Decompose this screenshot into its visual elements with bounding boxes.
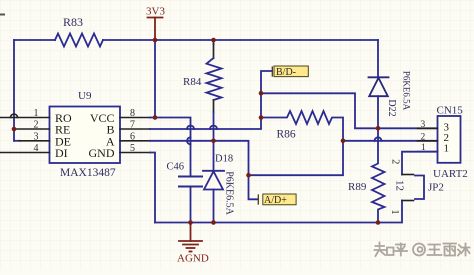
junction R84 top on rail: [211, 38, 216, 43]
pin 3 DE wire: [20, 140, 50, 142]
ground AGND: [179, 223, 202, 252]
net label B/D-: [272, 66, 308, 78]
wire hop on B over VCC drop: [187, 126, 194, 130]
svg-text:MAX13487: MAX13487: [60, 167, 116, 179]
capacitor C46: [179, 177, 202, 187]
svg-text:AGND: AGND: [177, 252, 209, 264]
pin 8 VCC stub: [120, 117, 150, 119]
wire hop on B over R84 leg: [210, 126, 217, 130]
junction C46 AGND on GND rail: [188, 220, 193, 225]
svg-text:P6KE6.5A: P6KE6.5A: [224, 171, 235, 215]
pin 1 RO wire: [0, 117, 50, 119]
wire CN15 pin1 to JP2 pin2: [402, 152, 438, 175]
svg-text:R83: R83: [63, 15, 83, 29]
wire 3V3 down to VCC pin 8: [154, 40, 156, 118]
svg-text:R84: R84: [183, 76, 202, 88]
pin 2 RE wire: [14, 128, 50, 130]
svg-text:3V3: 3V3: [146, 6, 165, 18]
svg-text:1: 1: [34, 108, 39, 119]
pin numbers U9: [34, 108, 136, 154]
junction R86 left on B riser: [259, 115, 264, 120]
wire 3V3 rail right segment: [103, 39, 378, 41]
resistor R86: [261, 111, 343, 141]
junction R84 bottom on A wire: [211, 139, 216, 144]
junction R86 right on A wire: [341, 139, 346, 144]
wire A net pin6 to drop: [150, 141, 249, 175]
junction B riser split: [259, 91, 264, 96]
svg-text:C46: C46: [167, 161, 185, 172]
svg-text:3: 3: [34, 131, 39, 142]
connector CN15 body box: [438, 116, 461, 163]
net label A/D+: [258, 194, 296, 206]
CN15 pin names: [444, 122, 450, 155]
wire 3V3 rail left segment to R83: [14, 39, 55, 41]
wire GND pin5 down: [150, 153, 155, 223]
svg-text:R89: R89: [348, 181, 367, 193]
header JP2 pin 2 stub: [402, 174, 414, 176]
svg-text:12: 12: [394, 180, 406, 191]
svg-text:2: 2: [390, 159, 401, 164]
wire R83 left leg down to DE pin: [13, 40, 15, 141]
svg-text:UART2: UART2: [433, 168, 468, 180]
resistor R89: [372, 128, 385, 222]
header JP2 pin 1 stub: [402, 200, 414, 202]
wire to net label B/D-: [261, 71, 272, 93]
svg-text:2: 2: [421, 132, 426, 142]
svg-text:D18: D18: [215, 153, 233, 164]
svg-text:JP2: JP2: [428, 182, 444, 194]
power port 3V3: [148, 18, 163, 41]
resistor R83: [55, 34, 103, 47]
pin 7 B stub: [120, 128, 150, 130]
CN15 pin stubs 3 2 1: [418, 128, 438, 151]
wire VCC net to C46: [150, 118, 191, 177]
junction D22 R89 on B wire: [376, 126, 381, 131]
svg-text:A/D+: A/D+: [264, 195, 287, 206]
svg-text:D22: D22: [386, 99, 397, 116]
svg-text:B/D-: B/D-: [276, 67, 296, 78]
svg-text:7: 7: [130, 120, 135, 131]
svg-text:GND: GND: [89, 146, 115, 160]
svg-text:CN15: CN15: [437, 104, 464, 116]
pin 4 DI wire: [0, 152, 50, 154]
diode D22: [369, 40, 389, 128]
header JP2 bracket: [415, 176, 424, 200]
wire A net to CN15 pin 2: [343, 140, 438, 142]
svg-text:1: 1: [389, 209, 400, 214]
svg-text:3: 3: [421, 120, 426, 130]
svg-text:2: 2: [34, 120, 39, 131]
junction A drop split: [246, 173, 251, 178]
svg-text:6: 6: [130, 131, 135, 142]
svg-text:R86: R86: [277, 128, 296, 140]
junction R89 bottom on GND rail: [376, 220, 381, 225]
junction D18 bottom on GND rail: [211, 220, 216, 225]
svg-text:8: 8: [130, 108, 135, 119]
svg-text:P6KE6.5A: P6KE6.5A: [402, 71, 412, 111]
junction R83 leg on RE wire: [12, 127, 17, 132]
wire hop on A over D22 leg: [375, 137, 382, 141]
watermark zhihu wang yu mu: [375, 243, 470, 257]
wire B net to CN15 pin 3: [261, 93, 438, 128]
wire to net label A/D+: [249, 175, 259, 199]
op-amp U9 body box: [50, 107, 121, 164]
resistor R84: [207, 40, 222, 141]
junction 3V3 drop on VCC wire: [153, 115, 158, 120]
CN15 pin numbers: [421, 120, 427, 153]
left edge cut mark: [0, 14, 4, 16]
wire A net cross link: [249, 141, 344, 175]
svg-text:4: 4: [34, 143, 39, 154]
wire GND bottom rail: [155, 201, 402, 223]
wire hop bulge on VCC drop over A wire: [187, 137, 191, 144]
wire hop on pin 1 over R83 leg: [11, 114, 18, 117]
pin 6 A stub: [120, 140, 150, 142]
wire C46 lower lead to GND rail: [190, 187, 192, 223]
svg-text:1: 1: [444, 142, 450, 154]
diode D18: [203, 141, 224, 223]
svg-text:U9: U9: [78, 90, 92, 102]
svg-text:DI: DI: [55, 146, 68, 160]
pin 5 GND stub: [120, 152, 150, 154]
wire corner into pin 3 DE: [14, 140, 20, 142]
pin names U9: [55, 111, 115, 160]
junction 3V3 stem on rail: [153, 38, 158, 43]
svg-text:5: 5: [130, 143, 135, 154]
wire B net pin7 to riser: [150, 93, 261, 129]
